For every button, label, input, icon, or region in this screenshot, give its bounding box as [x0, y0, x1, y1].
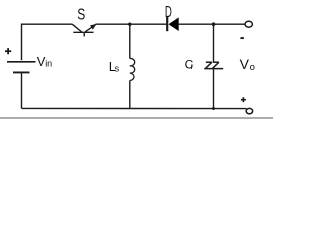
node junction inductor top	[128, 23, 131, 26]
node junction capacitor top	[212, 22, 216, 26]
terminal circle bottom	[246, 108, 252, 113]
switch S arrowhead	[90, 24, 96, 30]
wire switch to diode	[96, 23, 167, 25]
minus sign output	[240, 37, 244, 39]
diode D cathode bar	[166, 17, 168, 31]
terminal circle top	[245, 21, 252, 27]
svg-text:in: in	[45, 59, 52, 69]
svg-text:o: o	[250, 62, 255, 73]
wire top rail left (battery top to switch)	[22, 24, 73, 60]
node junction capacitor bottom	[212, 107, 215, 110]
svg-text:V: V	[240, 56, 250, 72]
inductor Ls top lead	[129, 24, 131, 58]
inductor Ls bottom lead	[129, 81, 131, 109]
capacitor Cr top lead	[213, 24, 215, 61]
plus sign output	[241, 97, 246, 102]
battery Vin bottom plate	[13, 71, 30, 73]
svg-text:s: s	[115, 63, 120, 73]
battery plus sign	[5, 48, 11, 54]
capacitor Cr bottom lead	[213, 69, 215, 109]
battery Vin top plate	[7, 61, 36, 63]
wire battery bottom lead	[21, 72, 23, 108]
inductor Ls coil	[130, 58, 135, 80]
diode D triangle	[169, 17, 179, 31]
svg-text:r: r	[191, 61, 194, 71]
switch S body	[72, 24, 95, 36]
capacitor Cr zz plates	[204, 62, 223, 68]
wire bottom rail	[22, 107, 247, 109]
wire diode to output	[179, 23, 246, 25]
svg-text:D: D	[165, 4, 172, 21]
svg-text:S: S	[77, 7, 85, 24]
border rule bottom	[0, 117, 273, 119]
